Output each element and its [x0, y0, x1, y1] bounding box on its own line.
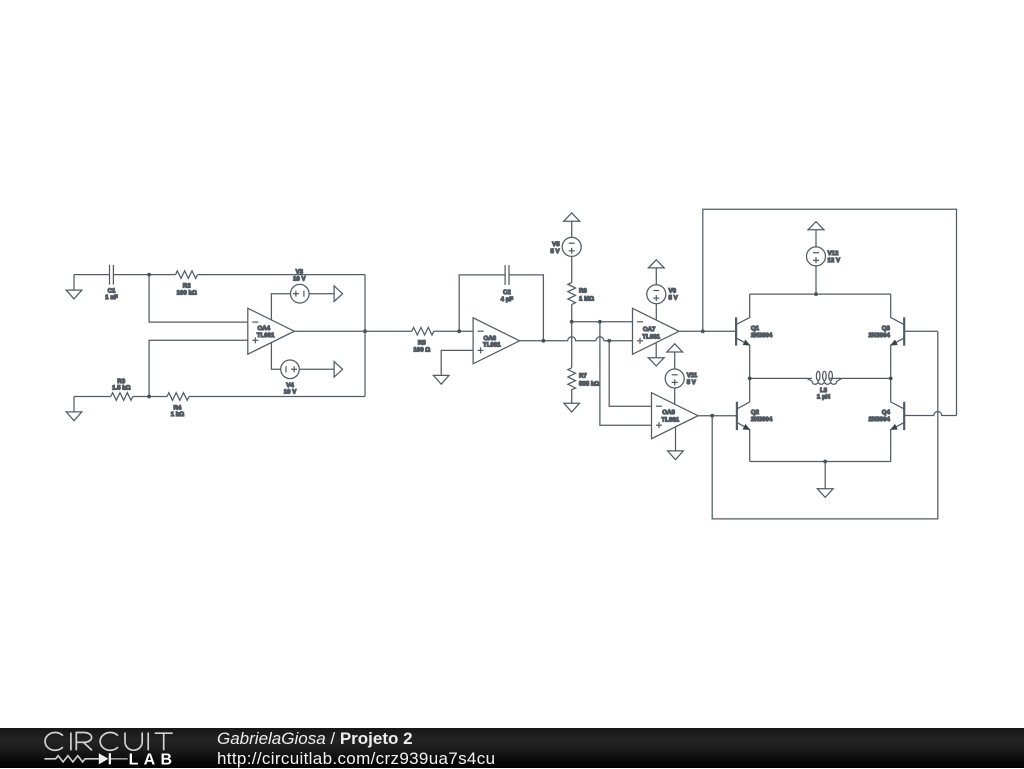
svg-text:TL081: TL081	[257, 332, 275, 339]
node junction OA8 plus tap	[598, 320, 602, 324]
ground GND2 bottom-left	[66, 397, 82, 421]
wire tap to OA8 non-inverting	[600, 322, 652, 425]
svg-text:Q1: Q1	[751, 325, 760, 332]
label Q2 2N3904	[751, 409, 773, 423]
ground GND3 under OA6	[433, 375, 449, 384]
label L3 value 1 uH	[817, 387, 830, 401]
label V6 5 V	[669, 287, 679, 301]
wire bottom rail emitters	[750, 461, 891, 463]
svg-text:2N3904: 2N3904	[751, 332, 773, 339]
wire OA8 output to Q2 base	[698, 415, 737, 417]
wire V11 to OA8 top	[674, 388, 676, 404]
node junction mid-right	[889, 377, 893, 381]
arrow flag up above V11	[667, 344, 683, 369]
wire non-inverting input to bottom node	[149, 340, 248, 396]
arrow flag up above V6	[648, 260, 664, 285]
svg-text:2N3904: 2N3904	[869, 332, 891, 339]
svg-text:4 μF: 4 μF	[501, 296, 514, 303]
label C2 value 4 uF	[501, 289, 514, 303]
label R4 value 1 kOhm	[171, 405, 184, 419]
label R6 value 1 MOhm	[579, 288, 594, 303]
svg-text:LAB: LAB	[129, 752, 178, 769]
node junction mid-left	[748, 377, 752, 381]
arrow flag V3	[334, 286, 343, 302]
node junction bottom	[147, 395, 151, 399]
label V3 10 V	[293, 269, 306, 283]
wire middle rail left	[750, 377, 812, 379]
voltage source V11 5 V	[665, 369, 684, 388]
wire gnd2 to R3	[74, 396, 111, 398]
wire OA4 to V4 negative supply	[271, 342, 280, 369]
node junction J1	[147, 273, 151, 277]
logo resistor zigzag	[44, 756, 127, 762]
node junction OA8 minus tap	[607, 339, 611, 343]
label V11 5 V	[687, 372, 698, 386]
svg-text:V11: V11	[687, 372, 698, 379]
wire R5 to OA6 inverting input	[434, 330, 473, 332]
wire gnd1 to C1	[74, 274, 110, 276]
svg-text:Q2: Q2	[751, 409, 760, 416]
svg-text:Q4: Q4	[882, 409, 891, 416]
voltage source V6 5 V	[647, 285, 666, 304]
op-amp OA7 TL081	[633, 308, 680, 354]
capacitor C2	[505, 265, 509, 285]
svg-text:V12: V12	[828, 250, 839, 257]
ground GND4 under R7	[564, 403, 580, 412]
ground GND6 under bridge	[817, 489, 833, 498]
svg-text:1 μH: 1 μH	[817, 394, 830, 401]
wire R2 to feedback corner	[198, 274, 366, 276]
wire outer loop A OA7out to Q4 base	[703, 209, 957, 415]
node junction OA7 out	[701, 329, 705, 333]
svg-text:C2: C2	[503, 289, 511, 296]
wire OA8 bottom to ground	[675, 427, 677, 451]
svg-text:OA8: OA8	[662, 409, 675, 416]
arrow flag V4	[334, 362, 343, 378]
wire OA7 output to Q1 base	[679, 330, 736, 332]
transistor Q3 2N3904	[891, 294, 938, 378]
svg-text:TL081: TL081	[662, 417, 680, 424]
svg-text:5 V: 5 V	[669, 295, 679, 302]
wire V3 to arrow	[309, 293, 334, 295]
wire C2 feedback right	[509, 275, 543, 341]
svg-text:R6: R6	[579, 288, 587, 295]
arrow flag up above V12	[808, 222, 824, 248]
svg-text:Q3: Q3	[882, 325, 891, 332]
svg-text:2N3904: 2N3904	[869, 416, 891, 423]
wire OA6 output with hops over x571.7 x599.9	[520, 337, 633, 341]
arrow flag up above V5	[564, 213, 580, 238]
voltage source V3 10 V	[291, 284, 310, 303]
wire R3 to R4	[133, 396, 167, 398]
wire OA6 non-inverting to ground	[441, 350, 473, 375]
svg-text:OA7: OA7	[643, 326, 656, 333]
node junction bottom rail	[823, 460, 827, 464]
label Q3 2N3904	[869, 325, 891, 339]
resistor R4	[167, 393, 189, 401]
op-amp OA4 TL081	[248, 308, 294, 354]
node junction R6-R7	[570, 320, 574, 324]
wire R6R7 vertical	[571, 322, 573, 368]
op-amp OA8 TL081	[652, 393, 699, 439]
resistor R7	[568, 368, 576, 390]
arrow flag down below OA7	[648, 358, 664, 366]
wire R6 to junction	[571, 305, 573, 322]
label V4 10 V	[284, 382, 297, 396]
label R3 value 1.5 kOhm	[112, 378, 131, 392]
wire junction to OA7 inverting input	[572, 321, 633, 323]
wire top rail collectors	[750, 293, 891, 295]
node junction C2 tap	[457, 329, 461, 333]
ground GND5 under OA8	[668, 451, 684, 460]
svg-text:1.5 kΩ: 1.5 kΩ	[112, 385, 131, 392]
resistor R5	[412, 327, 434, 335]
wire tap to OA8 inverting	[609, 341, 651, 406]
label Q1 2N3904	[751, 325, 773, 339]
svg-text:10 V: 10 V	[293, 275, 306, 282]
svg-text:R7: R7	[579, 373, 587, 380]
wire R7 to ground	[571, 390, 573, 403]
label R2 value 100 kOhm	[177, 282, 197, 296]
wire C1 to R2	[113, 274, 175, 276]
svg-text:100 kΩ: 100 kΩ	[177, 289, 197, 296]
wire to ground under bridge	[824, 462, 826, 489]
wire C2 feedback left	[459, 275, 505, 331]
op-amp OA6 TL081	[473, 318, 519, 364]
node junction C2 right	[542, 339, 546, 343]
capacitor C1	[110, 265, 114, 285]
svg-text:2N3904: 2N3904	[751, 416, 773, 423]
resistor R3	[111, 393, 133, 401]
wire OA4 to V3 positive supply	[271, 294, 290, 321]
svg-text:5 V: 5 V	[687, 379, 697, 386]
voltage source V5 5 V	[562, 237, 581, 256]
svg-text:TL081: TL081	[642, 333, 660, 340]
wire V5 to R6	[571, 256, 573, 282]
label V12 12 V	[828, 250, 841, 264]
wire middle rail right	[830, 377, 891, 379]
wire outer loop B OA8out to Q3 base	[712, 331, 938, 519]
wire V6 to OA7 top	[655, 304, 657, 320]
svg-text:R5: R5	[418, 340, 426, 347]
resistor R2	[176, 271, 198, 279]
wire R4 to feedback corner	[189, 396, 365, 398]
svg-text:TL081: TL081	[483, 341, 501, 348]
wire J1 down to inverting input	[149, 275, 248, 323]
voltage source V4 10 V	[281, 360, 300, 379]
wire feedback right vertical	[364, 275, 366, 397]
svg-text:505 kΩ: 505 kΩ	[579, 381, 599, 388]
svg-text:1 MΩ: 1 MΩ	[579, 296, 594, 303]
node junction OA8 out	[710, 414, 714, 418]
svg-text:V5: V5	[552, 241, 560, 248]
transistor Q2 2N3904	[737, 378, 750, 461]
label C1 value 1 nF	[105, 288, 118, 302]
logo diode	[99, 753, 111, 764]
svg-text:V6: V6	[669, 287, 677, 294]
label R5 value 100 Ohm	[413, 340, 430, 354]
label Q4 2N3904	[869, 409, 891, 423]
ground GND1 top-left	[66, 275, 82, 299]
svg-text:5 V: 5 V	[550, 248, 560, 255]
wire V12 to top rail	[815, 266, 817, 294]
label V5 5 V	[550, 241, 560, 255]
inductor L3	[807, 371, 842, 384]
wire V4 to arrow	[299, 368, 334, 370]
svg-text:10 V: 10 V	[284, 389, 297, 396]
svg-text:1 nF: 1 nF	[105, 294, 118, 301]
node junction V12 tap	[814, 292, 818, 296]
node junction on output	[363, 329, 367, 333]
label R7 value 505 kOhm	[579, 373, 599, 388]
svg-text:12 V: 12 V	[828, 257, 841, 264]
transistor Q1 2N3904	[736, 294, 750, 378]
resistor R6	[568, 283, 576, 305]
voltage source V12 12 V	[807, 247, 826, 266]
svg-text:100 Ω: 100 Ω	[413, 347, 430, 354]
svg-text:R2: R2	[183, 282, 191, 289]
svg-text:1 kΩ: 1 kΩ	[171, 411, 184, 418]
wire OA4 output to R5	[294, 330, 412, 332]
wire OA7 bottom to down arrow	[655, 343, 657, 358]
logo CIRCUIT letters	[45, 733, 173, 751]
transistor Q4 2N3904	[891, 378, 957, 461]
